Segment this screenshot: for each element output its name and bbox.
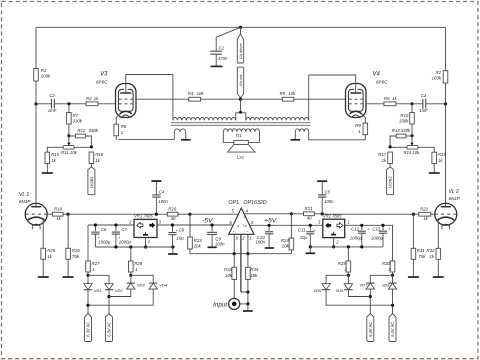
svg-text:20k: 20k	[281, 243, 290, 248]
svg-text:V3: V3	[100, 72, 108, 78]
wire center tap	[239, 99, 242, 113]
wire VD1 top	[87, 275, 89, 283]
svg-text:R32: R32	[427, 248, 435, 253]
wire R16 to tag	[90, 164, 92, 167]
tube VL1 labels	[19, 192, 31, 204]
svg-text:V4: V4	[373, 72, 381, 78]
ground input jack	[243, 304, 253, 311]
svg-text:R4: R4	[188, 91, 194, 96]
tube VL1 anode	[31, 206, 41, 208]
resistor R3	[86, 96, 99, 106]
wire V4 plate to transformer	[309, 75, 356, 93]
svg-text:VL 1: VL 1	[19, 192, 29, 198]
svg-text:VD1: VD1	[94, 288, 102, 293]
wire rail to C2	[36, 103, 52, 105]
svg-text:R18: R18	[438, 152, 446, 157]
wire node to R12	[69, 135, 76, 137]
svg-text:6P6C: 6P6C	[376, 80, 388, 85]
wire right rail upper	[445, 27, 447, 70]
svg-text:R10: R10	[400, 113, 408, 118]
tube V3 envelope	[116, 84, 137, 118]
svg-text:6.3V AC: 6.3V AC	[107, 322, 112, 337]
terminal 6.3V AC heater 3	[367, 314, 374, 342]
svg-text:R27: R27	[92, 261, 100, 266]
wire node to R13	[406, 135, 412, 137]
svg-text:UA driver: UA driver	[238, 42, 243, 59]
tube VL2 anode	[441, 206, 451, 208]
potentiometer R14	[404, 146, 421, 155]
tube V4 heater	[352, 115, 360, 117]
node R24 top	[290, 212, 293, 215]
wire R10 to node	[411, 124, 413, 136]
pin 2 VR1	[128, 220, 132, 225]
wiper R14	[410, 136, 413, 146]
wire node to R31	[412, 214, 414, 248]
tube VL1 grid	[26, 213, 48, 215]
svg-text:R12: R12	[77, 128, 85, 133]
node C3/R10	[410, 102, 413, 105]
wire left winding to R8	[119, 132, 175, 140]
tube VL1 heater	[32, 224, 40, 229]
resistor R28	[129, 261, 143, 272]
capacitor C6	[91, 225, 111, 247]
resistor R15	[45, 152, 60, 163]
tube V4 screen grid	[349, 98, 363, 100]
node C10 top	[268, 224, 271, 227]
wire VD5 bottom bus	[326, 290, 392, 306]
svg-text:C3: C3	[421, 93, 427, 98]
wire node to VD2	[88, 275, 109, 283]
wire R28 to node	[130, 272, 132, 275]
svg-text:10k: 10k	[288, 91, 296, 96]
svg-text:10k: 10k	[250, 273, 258, 278]
wire C4 to rail	[155, 197, 157, 214]
tube V3 anode	[120, 92, 131, 94]
wire C2 to R3	[54, 103, 86, 105]
pin 3 VR2	[318, 219, 321, 224]
resistor R4	[188, 91, 204, 101]
svg-text:6.3V AC: 6.3V AC	[368, 322, 373, 337]
ground C1	[211, 65, 223, 67]
terminal 6.3V AC heater 2	[106, 314, 113, 342]
transformer Tr1 primary left	[173, 117, 236, 120]
svg-text:Tr1: Tr1	[235, 133, 242, 138]
wire opamp pin4	[244, 213, 291, 215]
wire R20 to node	[178, 213, 190, 215]
wire R21 left	[291, 213, 303, 215]
pin 8 OP1	[234, 234, 238, 253]
resistor R22	[419, 207, 431, 221]
resistor R10	[399, 113, 414, 125]
capacitor C7	[112, 225, 132, 247]
svg-text:1000µ: 1000µ	[371, 236, 384, 241]
node jack right	[246, 302, 249, 305]
svg-text:40: 40	[171, 216, 176, 221]
diode VD5	[313, 284, 330, 293]
svg-text:10µ: 10µ	[300, 235, 308, 240]
wire V3 screen to R4	[136, 98, 189, 100]
svg-text:C13: C13	[372, 226, 380, 231]
wire R9 to winding	[364, 135, 366, 140]
wire jack to ground	[240, 303, 248, 305]
svg-text:6N1P: 6N1P	[19, 199, 31, 204]
svg-text:R14: R14	[404, 150, 412, 155]
node R28 top	[129, 245, 132, 248]
svg-text:10k: 10k	[412, 150, 420, 155]
wire VR1 pin3 to opamp pin6	[157, 224, 232, 226]
diode VD3	[127, 283, 146, 290]
wire VD6 bottom bus	[348, 290, 370, 297]
svg-text:100n: 100n	[324, 199, 334, 204]
pin 1 OP1	[248, 234, 252, 253]
wire R6 to node	[396, 103, 412, 105]
svg-text:R21: R21	[305, 206, 313, 211]
svg-text:10k: 10k	[197, 91, 205, 96]
potentiometer R11	[61, 146, 78, 155]
resistor R19	[53, 207, 64, 221]
svg-text:1: 1	[249, 235, 251, 240]
svg-text:10k: 10k	[225, 273, 233, 278]
svg-text:R22: R22	[420, 207, 428, 212]
wire node to R5	[241, 98, 283, 100]
wire R17 to tag	[389, 164, 391, 167]
svg-text:1000µ: 1000µ	[350, 236, 363, 241]
svg-text:C6: C6	[101, 227, 107, 232]
transformer Tr1 primary tap plateau	[236, 113, 246, 121]
wire VD1 to tag	[87, 290, 89, 314]
wire R14 left to R17	[390, 146, 407, 148]
transformer Tr1 primary right	[246, 117, 309, 120]
wire gnd bus right	[310, 246, 383, 248]
resistor R16	[89, 152, 104, 164]
transformer Tr1 core	[171, 123, 311, 126]
svg-text:330k: 330k	[401, 128, 411, 133]
svg-text:75k: 75k	[72, 254, 80, 259]
wire primary left terminal	[172, 75, 174, 121]
wire -5V to opamp pin5	[190, 213, 238, 215]
svg-text:R9: R9	[355, 123, 361, 128]
transformer Tr1 cathode winding right	[295, 129, 308, 132]
regulator VR1 7905	[134, 214, 157, 238]
wire left rail to VL1 plate	[35, 104, 37, 207]
node VD6 top	[347, 274, 350, 277]
svg-text:C12: C12	[351, 226, 359, 231]
transformer Tr1 cathode winding left	[174, 129, 186, 132]
wire VD7 to tag	[369, 289, 371, 313]
svg-text:470n: 470n	[218, 56, 228, 61]
wire to C1	[216, 27, 240, 51]
svg-text:+5V: +5V	[264, 217, 278, 224]
terminal Ucm1	[88, 167, 95, 195]
wire C3 to rail	[426, 103, 446, 105]
wire VR1 pin2	[88, 224, 134, 226]
svg-text:R13: R13	[392, 128, 400, 133]
resistor R13	[392, 128, 411, 138]
svg-text:1mF: 1mF	[48, 108, 57, 113]
svg-text:100n: 100n	[255, 240, 265, 245]
tube VL2 envelope	[435, 203, 457, 225]
node C4	[155, 213, 158, 216]
wire node to R10	[411, 104, 413, 113]
wire VR2 pin1	[345, 225, 393, 261]
resistor R2	[432, 70, 448, 83]
tube VL1 envelope	[25, 203, 47, 225]
svg-text:1000µ: 1000µ	[98, 239, 111, 244]
svg-text:R3: R3	[86, 96, 92, 101]
resistor R34	[246, 267, 259, 280]
svg-text:R24: R24	[281, 238, 289, 243]
wire R23 to rail	[190, 249, 291, 254]
svg-text:100n: 100n	[215, 241, 225, 246]
svg-text:R8: R8	[121, 124, 127, 129]
node C6 top	[94, 223, 97, 226]
node VD8 top	[391, 274, 394, 277]
tube V4 beam plates	[348, 89, 363, 111]
pin 2 OP1	[241, 234, 245, 292]
resistor R27	[86, 261, 100, 272]
capacitor C11	[298, 225, 316, 247]
tube VL2 cathode	[437, 217, 454, 220]
wire R7 to node	[68, 124, 70, 136]
tube V3 labels	[96, 72, 108, 85]
svg-text:100n: 100n	[158, 199, 168, 204]
wire R14 right to R18	[418, 147, 434, 152]
wire R23 top	[189, 214, 191, 237]
node R29 top	[347, 245, 350, 248]
node R17 top	[389, 145, 392, 148]
resistor R12	[76, 128, 99, 138]
svg-text:VL 2: VL 2	[449, 189, 459, 195]
svg-text:R17: R17	[378, 152, 386, 157]
capacitor C10	[255, 225, 273, 247]
capacitor C4	[151, 181, 168, 204]
wire R24 top	[290, 214, 292, 238]
svg-text:R16: R16	[95, 152, 103, 157]
ground C11	[306, 247, 316, 253]
resistor R25	[41, 248, 56, 259]
wire R19 to node	[63, 213, 68, 215]
capacitor C9	[207, 225, 225, 247]
svg-text:10µ: 10µ	[177, 235, 185, 240]
resistor R17	[378, 152, 392, 164]
svg-text:6P6C: 6P6C	[96, 80, 108, 85]
wire VR1 pin1	[145, 238, 147, 248]
wiper R11	[67, 136, 70, 146]
ground R26	[63, 259, 74, 277]
tube V4 anode	[350, 92, 361, 94]
svg-text:10k: 10k	[70, 150, 78, 155]
wire R12 to R16 node	[85, 136, 91, 147]
node right rail / input row	[444, 102, 447, 105]
svg-text:-5V: -5V	[202, 217, 214, 224]
pin 3 VR1	[159, 220, 162, 225]
wire V3 plate to transformer	[126, 75, 173, 94]
node R23 top	[188, 213, 191, 216]
wire tag UA driver	[240, 27, 242, 34]
svg-text:Input: Input	[213, 301, 227, 308]
svg-text:R5: R5	[280, 91, 286, 96]
svg-text:VD3: VD3	[137, 283, 146, 288]
wire VR1 pin2 corner to R27	[87, 225, 89, 261]
svg-text:20k: 20k	[193, 243, 202, 248]
node VD1 bottom bus	[86, 304, 89, 307]
wire R33 to jack	[233, 279, 235, 298]
node C5	[321, 212, 324, 215]
pin 1 VR1	[148, 239, 150, 244]
op-amp OP1	[228, 200, 266, 234]
ground gnd bus left	[168, 247, 178, 254]
svg-text:VR1 7905: VR1 7905	[134, 214, 153, 219]
tube V4 envelope	[346, 84, 367, 118]
wire node to C3	[412, 103, 423, 105]
svg-text:6.3V AC: 6.3V AC	[86, 322, 91, 337]
ground R25	[38, 259, 49, 277]
svg-text:C8: C8	[179, 228, 185, 233]
regulator VR2 7805	[323, 213, 345, 237]
label -5V	[202, 217, 214, 224]
node VR2 pin2	[332, 245, 335, 248]
wire R5 to V4 screen	[294, 98, 346, 100]
wire VD3 top	[130, 275, 132, 283]
tube VL1 cathode	[28, 217, 45, 220]
resistor R26	[66, 248, 81, 259]
svg-text:1: 1	[148, 239, 150, 244]
resistor R32	[427, 248, 441, 259]
resistor R24	[281, 238, 294, 250]
tube VL2 grid	[435, 213, 457, 215]
wire R2 to node	[445, 83, 447, 104]
wire R13 to R17 node	[390, 136, 396, 147]
svg-text:R7: R7	[73, 113, 79, 118]
svg-text:C1: C1	[219, 45, 225, 50]
wire pin2 elbow	[241, 291, 248, 293]
wire VL2 grid to R22	[431, 213, 435, 215]
node C11 top	[309, 224, 312, 227]
capacitor C3	[419, 93, 428, 113]
tube V3 screen grid	[119, 98, 133, 100]
svg-text:330k: 330k	[73, 118, 83, 123]
svg-text:6N1P: 6N1P	[449, 196, 461, 201]
pin 2 VR2	[335, 239, 339, 244]
capacitor C2	[48, 93, 57, 113]
node top center	[239, 26, 242, 29]
svg-text:UA out: UA out	[238, 74, 243, 87]
wire R27 to node	[87, 272, 89, 275]
resistor R18	[432, 152, 447, 163]
tube VL2 heater	[442, 224, 450, 229]
wire gnd bus left	[95, 246, 172, 248]
wire R8 to winding	[115, 136, 117, 140]
resistor R8	[114, 124, 127, 136]
svg-text:R28: R28	[134, 261, 142, 266]
tube V3 cathode	[120, 111, 132, 114]
speaker Ls1	[228, 140, 256, 159]
svg-text:R23: R23	[194, 238, 202, 243]
ground R31	[408, 259, 419, 277]
svg-text:R29: R29	[338, 261, 346, 266]
svg-text:R25: R25	[47, 248, 55, 253]
svg-text:+: +	[243, 216, 245, 220]
resistor R31	[411, 248, 426, 259]
label +5V	[264, 217, 278, 224]
node VR1 pin1	[144, 245, 147, 248]
wire VL1 cathode to R25	[42, 220, 44, 249]
pin 1 VR2	[348, 219, 350, 224]
svg-text:R20: R20	[168, 207, 176, 212]
wire R28 drop	[130, 247, 132, 261]
capacitor C12	[350, 225, 370, 247]
node VD2 bottom bus	[107, 295, 110, 298]
wire R30 to node	[392, 272, 394, 275]
resistor R20	[167, 207, 178, 221]
wire opamp pin3	[250, 224, 323, 226]
transformer Tr1 secondary	[223, 129, 259, 132]
pin 5 OP1	[231, 209, 234, 214]
ground R18	[429, 164, 440, 173]
svg-text:VD7: VD7	[360, 283, 369, 288]
ground R32	[433, 259, 444, 277]
terminal UA driver	[237, 34, 243, 63]
node R7/R12/wiper	[67, 134, 70, 137]
wire R29 to node	[347, 272, 349, 275]
wire tag UA out	[240, 98, 242, 100]
wire right rail to VL2 plate	[445, 104, 447, 207]
wire V4 cathode to R9	[362, 114, 366, 123]
wire R34 bottom	[247, 279, 249, 304]
wire R24 to rail	[290, 250, 292, 254]
capacitor C1	[210, 45, 228, 61]
wire R29 drop	[347, 247, 349, 261]
wire C5 to rail	[321, 197, 323, 214]
svg-text:VD2: VD2	[115, 288, 124, 293]
wire primary right terminal	[308, 75, 310, 120]
capacitor C13	[371, 225, 391, 247]
wire VD3 bottom bus	[109, 289, 131, 296]
resistor R1	[34, 68, 51, 81]
wire VD8 to tag	[392, 289, 394, 313]
wire node to R7	[68, 104, 70, 113]
svg-text:Ucm2: Ucm2	[388, 176, 393, 188]
svg-text:OP1632D: OP1632D	[243, 200, 266, 206]
ground R15	[42, 164, 53, 173]
node VD8 bottom bus	[391, 304, 394, 307]
diode VD1	[84, 284, 102, 293]
svg-text:Ls1: Ls1	[237, 155, 245, 160]
diode VD4	[149, 283, 168, 290]
svg-text:R31: R31	[417, 248, 425, 253]
wire R21 to C5 node	[314, 213, 322, 215]
ground right winding	[291, 132, 301, 140]
wire VR2 pin2	[333, 238, 335, 247]
wire right winding to R9	[309, 132, 366, 140]
label Tr1	[235, 133, 242, 138]
node C12 top	[360, 224, 363, 227]
diode VD7	[360, 283, 375, 290]
ground C10	[265, 247, 274, 249]
wire VL1 grid to R19	[47, 213, 52, 215]
svg-text:75k: 75k	[419, 254, 427, 259]
node C7 bottom	[114, 245, 117, 248]
svg-text:VD4: VD4	[159, 283, 168, 288]
wire secondary right	[248, 132, 259, 143]
wire R11 left to R15	[47, 147, 63, 152]
diode VD6	[336, 284, 353, 293]
svg-text:Ucm1: Ucm1	[89, 176, 94, 188]
tube V4 labels	[373, 72, 389, 85]
svg-text:C5: C5	[325, 190, 331, 195]
node VD3 top	[129, 274, 132, 277]
svg-text:100k: 100k	[41, 74, 51, 79]
